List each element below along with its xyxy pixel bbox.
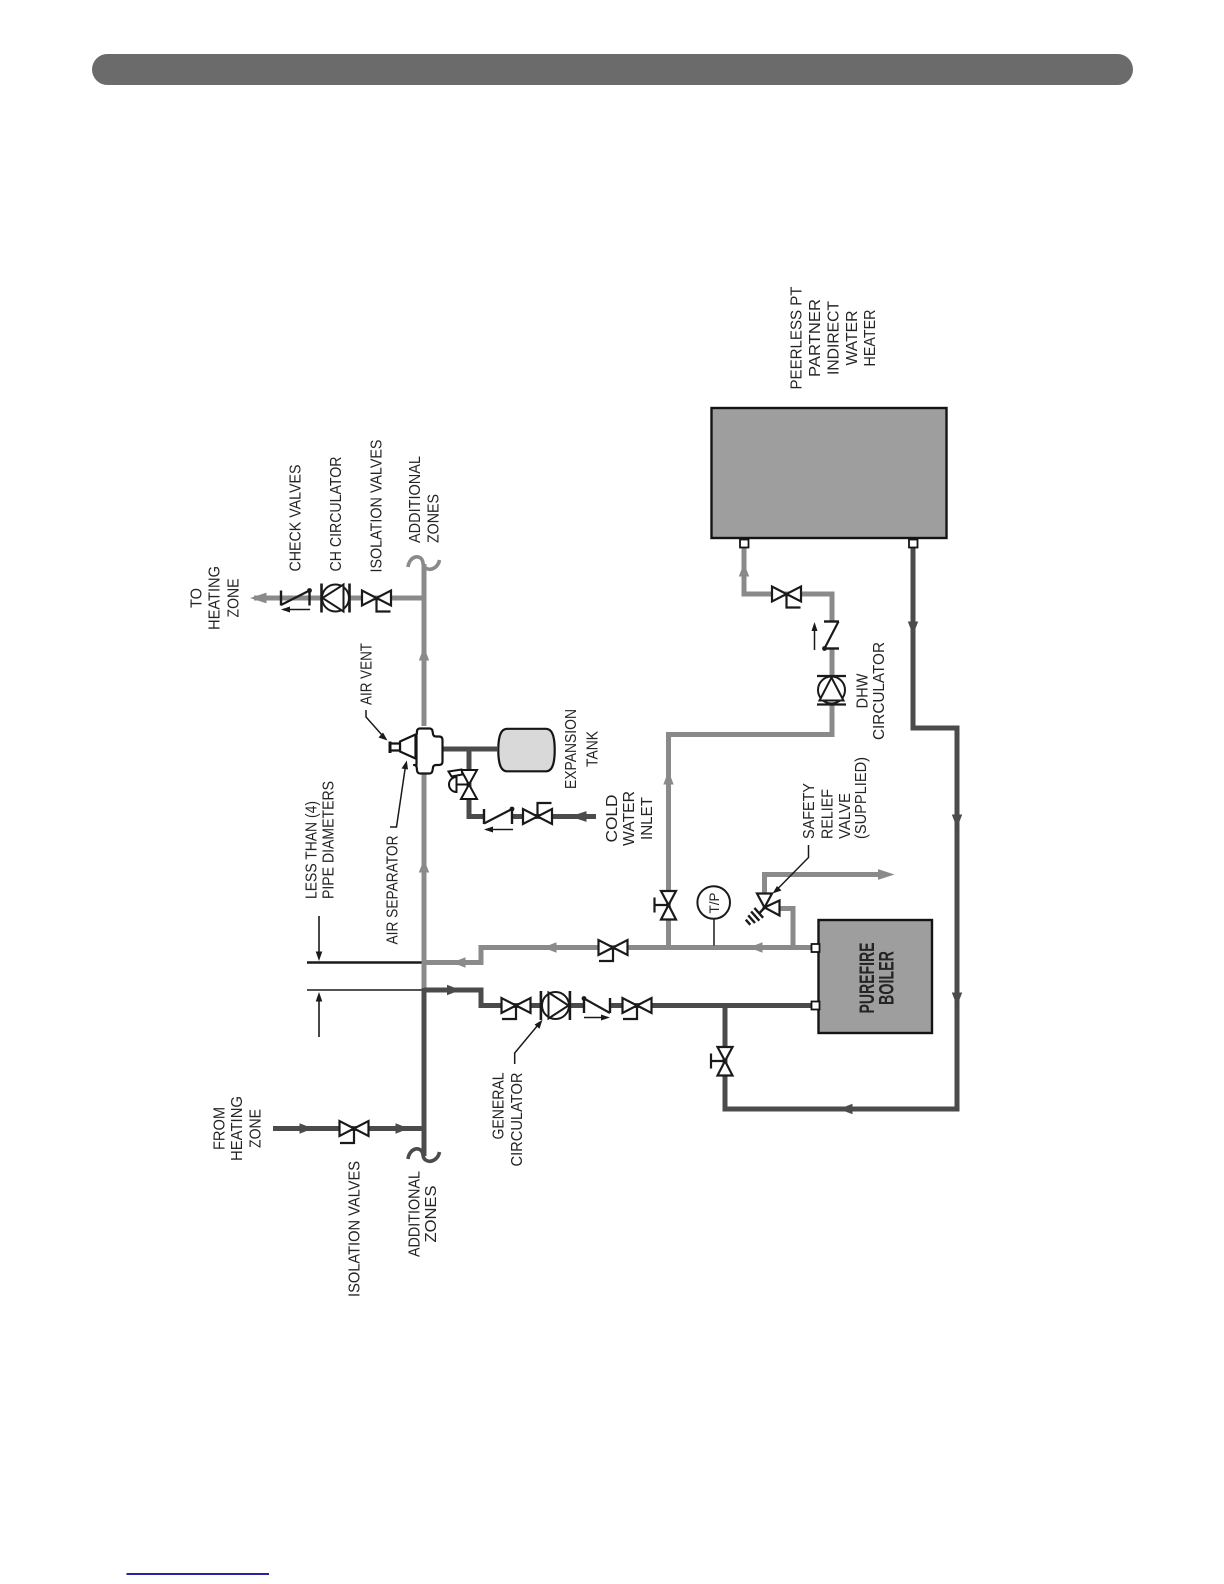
arrow main riser up 2 bbox=[419, 859, 429, 873]
PIPES-LIGHT bbox=[254, 545, 882, 990]
svg-text:PARTNER: PARTNER bbox=[807, 299, 824, 377]
svg-text:PEERLESS PT: PEERLESS PT bbox=[789, 286, 806, 390]
return line isolation valve bbox=[599, 940, 628, 961]
CH check valve bbox=[281, 588, 312, 612]
svg-text:AIR SEPARATOR: AIR SEPARATOR bbox=[385, 836, 402, 945]
dimension extension line upper bbox=[307, 961, 422, 963]
arrow return into main bbox=[452, 957, 466, 967]
wire: expansion tank line bbox=[443, 747, 497, 752]
arrow dhw riser up bbox=[663, 771, 673, 785]
leader: air separator bbox=[390, 761, 408, 828]
arrow from heating zone 1 bbox=[300, 1123, 314, 1133]
supply-side isolation valve 1 bbox=[502, 998, 531, 1019]
CH isolation valve bbox=[362, 591, 391, 612]
dhw circulator bbox=[817, 676, 846, 705]
svg-text:WATER: WATER bbox=[844, 311, 861, 366]
svg-text:PIPE DIAMETERS: PIPE DIAMETERS bbox=[321, 781, 338, 899]
svg-text:SAFETY: SAFETY bbox=[801, 783, 818, 839]
heater inlet valve bbox=[772, 587, 801, 608]
svg-text:ADDITIONAL: ADDITIONAL bbox=[407, 1171, 424, 1257]
svg-text:CIRCULATOR: CIRCULATOR bbox=[871, 642, 888, 740]
svg-text:DHW: DHW bbox=[855, 673, 872, 708]
wire: dhw cold riser bbox=[669, 735, 833, 949]
wire: dhw return from heater bbox=[725, 545, 957, 1109]
arrow to heating zone bbox=[250, 593, 267, 604]
svg-text:INDIRECT: INDIRECT bbox=[826, 300, 843, 375]
heater stub right bbox=[909, 540, 918, 548]
wire: main riser top bbox=[422, 564, 427, 726]
PIPES-DARK bbox=[273, 545, 957, 1156]
svg-text:CIRCULATOR: CIRCULATOR bbox=[509, 1073, 526, 1167]
svg-text:ISOLATION VALVES: ISOLATION VALVES bbox=[369, 440, 386, 573]
air separator bbox=[390, 729, 443, 774]
svg-text:BOILER: BOILER bbox=[876, 951, 899, 1005]
leader: safety relief valve bbox=[773, 845, 809, 894]
svg-text:WATER: WATER bbox=[621, 791, 638, 846]
svg-text:HEATING: HEATING bbox=[229, 1096, 246, 1161]
T/P gauge bbox=[697, 886, 730, 945]
arrow dhw return down 3 bbox=[952, 993, 962, 1007]
arrow cold water inlet bbox=[570, 811, 587, 822]
svg-text:(SUPPLIED): (SUPPLIED) bbox=[853, 757, 870, 839]
svg-text:HEATING: HEATING bbox=[207, 566, 224, 630]
dimension arrow lower bbox=[318, 999, 320, 1037]
CH circulator bbox=[322, 584, 350, 613]
boiler stub return bbox=[812, 1002, 820, 1010]
air vent cap bbox=[389, 742, 392, 754]
svg-text:COLD: COLD bbox=[604, 795, 621, 843]
header bar bbox=[92, 54, 1133, 85]
svg-text:INLET: INLET bbox=[639, 796, 656, 840]
svg-text:ADDITIONAL: ADDITIONAL bbox=[407, 456, 424, 543]
svg-text:ZONES: ZONES bbox=[426, 494, 443, 543]
svg-text:GENERAL: GENERAL bbox=[490, 1072, 507, 1139]
leader: general circulator bbox=[515, 1020, 543, 1064]
general circulator bbox=[541, 991, 570, 1020]
svg-text:LESS THAN (4): LESS THAN (4) bbox=[304, 801, 321, 899]
pipe break squiggle bottom bbox=[408, 1149, 440, 1161]
arrow from heating zone 2 bbox=[396, 1123, 410, 1133]
svg-text:TANK: TANK bbox=[585, 730, 602, 767]
pipe break squiggle top bbox=[408, 557, 440, 569]
dimension lines bbox=[307, 916, 422, 1037]
cold water isolation valve bbox=[523, 803, 552, 824]
arrow dhw return down 1 bbox=[908, 622, 918, 636]
svg-text:RELIEF: RELIEF bbox=[820, 789, 837, 839]
svg-text:T/P: T/P bbox=[706, 893, 722, 914]
relief valve spring hatching bbox=[746, 907, 765, 925]
wire: boiler supply to main (stepped) bbox=[424, 948, 814, 963]
wire: to-heating-zone branch bbox=[254, 596, 424, 601]
arrow supply right bbox=[447, 985, 461, 995]
wire: relief discharge bbox=[765, 875, 883, 896]
svg-text:FROM: FROM bbox=[212, 1107, 229, 1150]
footer blue rule bbox=[127, 1573, 270, 1575]
general line check valve bbox=[582, 996, 610, 1020]
dhw check valve bbox=[812, 622, 840, 651]
arrow dhw return down 2 bbox=[952, 815, 962, 829]
wire: main riser mid bbox=[422, 774, 427, 990]
boiler return isolation valve bbox=[623, 998, 652, 1019]
dimension extension line lower bbox=[307, 989, 422, 991]
svg-text:TO: TO bbox=[189, 588, 206, 608]
arrow bottom line left bbox=[839, 1104, 853, 1114]
wire: dhw loop up to heater bbox=[744, 545, 832, 737]
expansion tank bbox=[498, 729, 554, 772]
arrow main riser up 1 bbox=[419, 647, 429, 661]
safety relief valve bbox=[757, 894, 780, 916]
leader: air vent bbox=[366, 710, 388, 741]
svg-text:ISOLATION VALVES: ISOLATION VALVES bbox=[347, 1161, 364, 1297]
arrow heater inlet up bbox=[739, 563, 749, 577]
wire: boiler return from main (stepped) bbox=[424, 990, 818, 1006]
wire: from-heating-zone line bbox=[273, 1126, 424, 1131]
arrow return left 1 bbox=[543, 942, 557, 952]
from-heating-zone isolation valve bbox=[340, 1121, 369, 1143]
riser isolation valve (vertical) bbox=[655, 891, 677, 920]
svg-text:ZONE: ZONE bbox=[226, 579, 243, 618]
purge valve (separator drain) bbox=[449, 770, 478, 800]
PEERLESS PT PARTNER indirect water heater box bbox=[712, 408, 947, 538]
PUREFIRE boiler box bbox=[819, 920, 933, 1033]
wire: relief valve branch bbox=[778, 909, 793, 949]
svg-text:ZONE: ZONE bbox=[248, 1109, 265, 1148]
dimension arrow upper bbox=[318, 916, 320, 954]
arrow return left 2 bbox=[749, 942, 763, 952]
boiler stub supply bbox=[812, 944, 820, 952]
svg-text:AIR VENT: AIR VENT bbox=[359, 643, 376, 705]
dhw return drain valve (vertical) bbox=[711, 1047, 733, 1076]
svg-text:HEATER: HEATER bbox=[862, 310, 879, 367]
svg-text:CHECK VALVES: CHECK VALVES bbox=[288, 465, 305, 572]
svg-text:VALVE: VALVE bbox=[837, 793, 854, 839]
svg-text:CH CIRCULATOR: CH CIRCULATOR bbox=[328, 457, 345, 572]
wire: main riser lower bbox=[422, 988, 427, 1156]
wire: cold water inlet line bbox=[469, 749, 596, 817]
svg-text:EXPANSION: EXPANSION bbox=[563, 709, 580, 789]
heater stub left bbox=[740, 540, 749, 548]
arrow relief discharge bbox=[878, 869, 895, 880]
svg-text:ZONES: ZONES bbox=[423, 1186, 440, 1243]
cold water check valve bbox=[484, 807, 514, 833]
